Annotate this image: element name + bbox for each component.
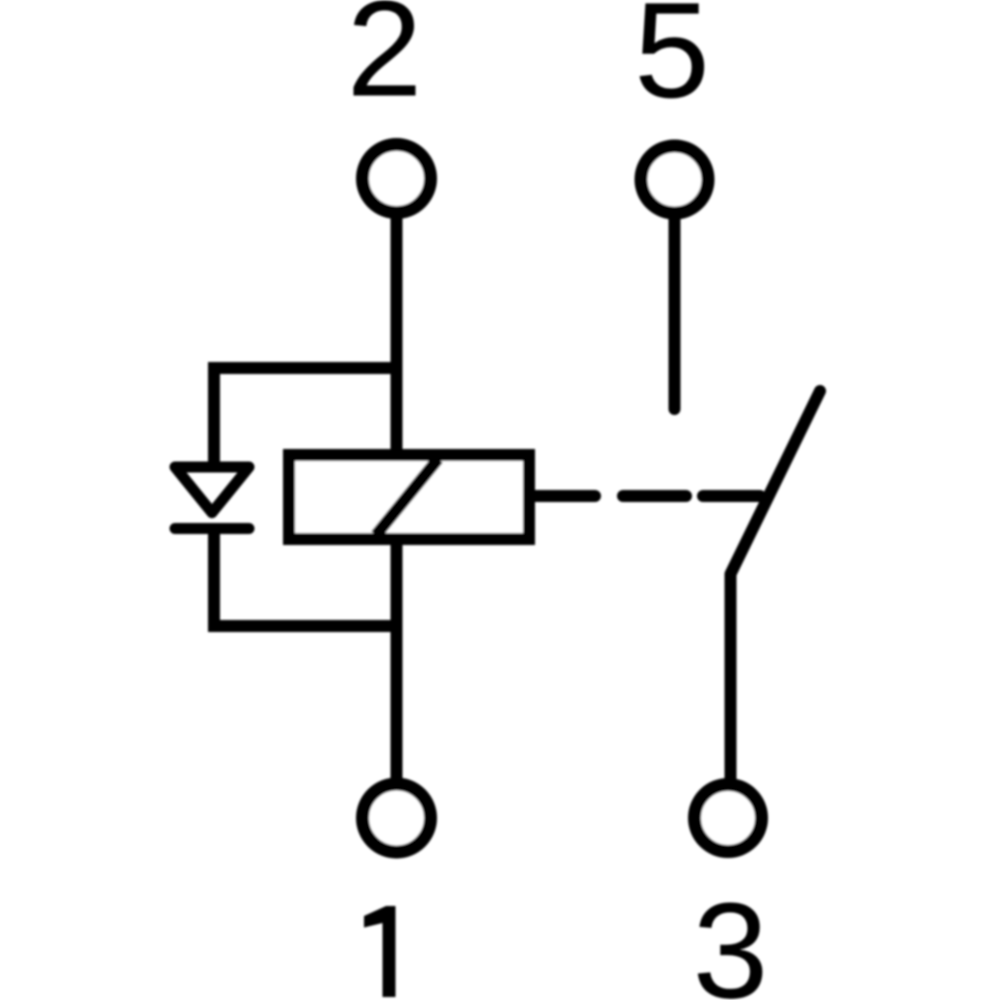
- svg-text:5: 5: [634, 0, 710, 126]
- wire bottom loop (diode cathode to coil bottom): [214, 528, 397, 626]
- svg-text:3: 3: [693, 875, 769, 1000]
- terminal circle pin 3: [695, 785, 762, 852]
- svg-text:2: 2: [347, 0, 423, 125]
- wire pin5 down-stub: [669, 214, 681, 409]
- pin label 1 (custom glyph, no bottom serif): [364, 906, 396, 997]
- wire pin2-to-pin1 vertical (passes behind coil): [391, 212, 403, 781]
- switch contact blade (NO contact to pin3): [731, 391, 821, 781]
- wire dashed actuator link (coil to contact): [535, 490, 760, 502]
- diode D1 (suppressor, anode top / cathode bar bottom): [175, 467, 249, 529]
- relay coil K1 (box with diagonal): [289, 455, 529, 539]
- terminal circle pin 5: [641, 146, 708, 213]
- terminal circle pin 1: [363, 784, 431, 852]
- terminal circle pin 2: [363, 145, 431, 213]
- wire top loop (coil top to diode anode): [214, 368, 397, 466]
